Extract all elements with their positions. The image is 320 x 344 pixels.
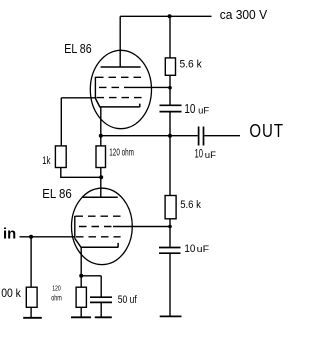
wire 1k bottom L to plate node [61, 168, 101, 178]
svg-text:10: 10 [184, 243, 195, 255]
wire 100k top lead [30, 237, 32, 287]
capacitor 10uF (top bypass) [160, 105, 182, 111]
svg-text:120 ohm: 120 ohm [109, 148, 134, 159]
svg-text:5.6 k: 5.6 k [180, 199, 201, 211]
wire V2 g2 to screen rail [113, 226, 170, 228]
tube V1 envelope [90, 50, 151, 128]
wire 50uF bottom lead [100, 303, 102, 317]
wire to OUT [204, 135, 240, 137]
svg-text:1k: 1k [42, 155, 50, 167]
V2 grid g1 (dashed) [76, 215, 123, 217]
wire 120ohm top lead [100, 136, 102, 146]
node 300V junction dot [168, 14, 172, 18]
wire V1 g2 to screen rail [127, 86, 170, 88]
wire V1 cathode lead down [100, 107, 102, 136]
V2 grid g2 (dashed) [79, 226, 113, 228]
wire output node [101, 135, 198, 137]
svg-text:120: 120 [52, 283, 61, 292]
wire V2 cathode lead down [80, 247, 82, 287]
capacitor 10uF coupling [199, 127, 204, 146]
wire 120ohm cathode bottom lead [80, 307, 82, 317]
svg-text:EL 86: EL 86 [64, 41, 91, 56]
node g2 bottom junction dot [168, 225, 172, 229]
svg-text:OUT: OUT [249, 121, 284, 142]
svg-text:uF: uF [198, 105, 209, 116]
V1 anode plate [101, 66, 141, 68]
svg-text:50 uf: 50 uf [118, 294, 138, 306]
ground 100k [23, 317, 42, 319]
tube V2 envelope [72, 188, 133, 264]
ground 50uF [95, 316, 112, 318]
V1 grid g2 (dashed) [99, 86, 127, 88]
svg-text:ca 300 V: ca 300 V [220, 7, 268, 22]
svg-text:10: 10 [195, 147, 204, 161]
wire V1 g1 lead left [61, 97, 95, 99]
V2 anode plate [83, 196, 118, 198]
svg-text:ohm: ohm [51, 293, 62, 303]
node cathode junction dot [99, 134, 103, 138]
wire input [20, 236, 75, 238]
resistor 120 ohm (cathode) [76, 287, 86, 307]
node rail/output junction dot [168, 134, 172, 138]
capacitor 50uF [90, 297, 112, 302]
svg-text:EL 86: EL 86 [42, 186, 71, 201]
wire 1k top lead [60, 98, 62, 146]
wire +300V top rail [120, 15, 211, 17]
wire V1 anode lead to 300V [119, 16, 121, 67]
resistor 100k [26, 287, 37, 307]
wire 100k bottom lead [30, 307, 32, 318]
V1 grid g3 (dashed) [97, 97, 142, 99]
resistor 5.6k (bottom) [165, 196, 176, 219]
wire V1 grid bracket [94, 77, 96, 99]
node cathode/50uF junction dot [79, 274, 83, 278]
capacitor 10uF (bottom bypass) [159, 248, 181, 254]
node plate/1k junction dot [99, 175, 103, 179]
svg-text:10: 10 [184, 101, 195, 116]
ground 120ohm [71, 316, 91, 318]
wire 120ohm bottom to V2 plate [100, 168, 102, 198]
V1 grid g1 (dashed) [96, 76, 142, 78]
svg-text:00 k: 00 k [1, 287, 21, 300]
V2 cathode [75, 238, 118, 247]
V1 cathode [95, 98, 139, 107]
node input junction dot [29, 235, 33, 239]
wire cathode node to 50uF [81, 276, 101, 297]
ground rail bottom right [160, 315, 182, 317]
svg-text:5.6 k: 5.6 k [180, 58, 203, 70]
resistor 5.6k (top) [165, 58, 175, 75]
wire V2 grid bracket [74, 216, 76, 239]
svg-text:uF: uF [197, 244, 210, 255]
svg-text:in: in [3, 227, 16, 243]
resistor 1k [55, 146, 66, 168]
resistor 120 ohm (anode stopper) [96, 146, 106, 168]
wire screen rail lower segments [169, 219, 171, 317]
node g2 top junction dot [168, 86, 172, 90]
wire screen rail upper segments [169, 16, 171, 195]
svg-text:uF: uF [205, 150, 216, 161]
V2 grid g3 (dashed) [76, 236, 121, 238]
